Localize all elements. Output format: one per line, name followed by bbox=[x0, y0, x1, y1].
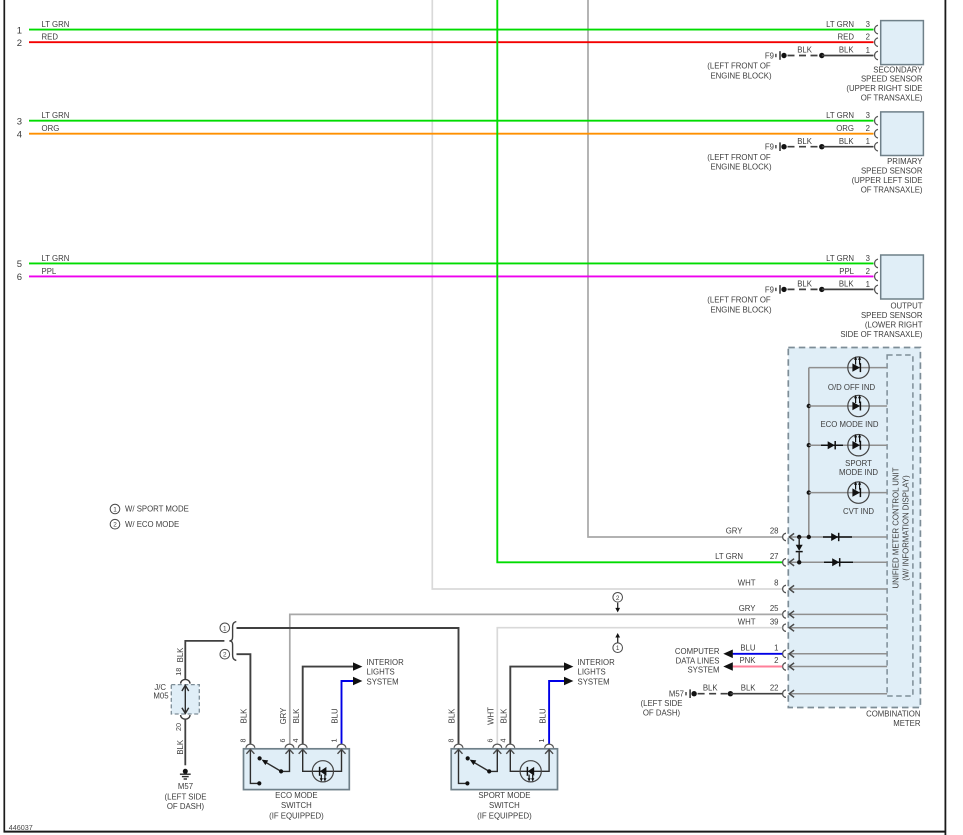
svg-text:LT GRN: LT GRN bbox=[42, 111, 70, 120]
eco switch LED bbox=[312, 761, 333, 782]
primary speed sensor box bbox=[881, 112, 924, 156]
junction dot pin28 bus bbox=[807, 535, 811, 539]
page border left bbox=[3, 0, 5, 832]
svg-text:5: 5 bbox=[17, 259, 22, 270]
wire BLK J/C to ground M57 bbox=[184, 719, 186, 765]
svg-text:BLK: BLK bbox=[240, 708, 249, 724]
svg-text:OF TRANSAXLE): OF TRANSAXLE) bbox=[861, 94, 923, 103]
sport mode switch box bbox=[451, 749, 557, 790]
option 2 circle at brace bbox=[220, 649, 230, 659]
svg-text:INTERIOR: INTERIOR bbox=[578, 658, 616, 667]
arrow computer data lines PNK bbox=[723, 662, 733, 671]
svg-text:1: 1 bbox=[113, 507, 117, 514]
wire 6 PPL bbox=[29, 275, 874, 277]
svg-text:4: 4 bbox=[498, 739, 507, 743]
sport switch arm arrowhead bbox=[470, 760, 477, 766]
svg-text:1: 1 bbox=[866, 280, 870, 289]
legend 1 W/ SPORT MODE bbox=[110, 504, 189, 514]
svg-text:DATA LINES: DATA LINES bbox=[676, 656, 720, 665]
svg-text:SPORT MODE: SPORT MODE bbox=[478, 791, 530, 800]
pin 39 inner wire bbox=[789, 627, 887, 629]
svg-text:2: 2 bbox=[17, 38, 22, 49]
svg-text:LIGHTS: LIGHTS bbox=[578, 668, 606, 677]
connector arcs output sensor bbox=[875, 259, 878, 294]
junction dot M57 right bbox=[728, 691, 733, 696]
svg-text:2: 2 bbox=[616, 595, 620, 602]
svg-text:8: 8 bbox=[447, 739, 456, 743]
svg-text:(IF EQUIPPED): (IF EQUIPPED) bbox=[477, 811, 532, 820]
svg-text:OF TRANSAXLE): OF TRANSAXLE) bbox=[861, 186, 923, 195]
svg-text:GRY: GRY bbox=[726, 527, 744, 536]
svg-text:BLK: BLK bbox=[839, 280, 855, 289]
svg-text:SPEED SENSOR: SPEED SENSOR bbox=[861, 167, 923, 176]
svg-text:27: 27 bbox=[770, 552, 779, 561]
wire BLK solid to pin 1 (primary) bbox=[822, 146, 874, 148]
svg-text:PPL: PPL bbox=[42, 267, 57, 276]
wire BLU sport pin 1 to interior lights bbox=[549, 681, 564, 744]
wire BLK dashed ground (output) bbox=[788, 288, 820, 290]
junction connector J/C M05 box bbox=[171, 685, 199, 714]
junction dot bus cvt branch bbox=[807, 490, 811, 494]
wire BLU eco pin 1 to interior lights bbox=[342, 681, 354, 744]
svg-text:(UPPER RIGHT SIDE: (UPPER RIGHT SIDE bbox=[846, 84, 922, 93]
branch wire SPORT MODE ind bbox=[809, 444, 887, 446]
svg-text:OF DASH): OF DASH) bbox=[167, 802, 205, 811]
svg-text:M57: M57 bbox=[178, 782, 193, 791]
wire BLK dashed ground (secondary) bbox=[788, 55, 820, 57]
svg-text:1: 1 bbox=[774, 644, 778, 653]
ground F9 (output sensor) bbox=[776, 285, 787, 294]
ground M57 (right) bbox=[686, 689, 697, 698]
svg-text:WHT: WHT bbox=[738, 579, 756, 588]
svg-text:(W/ INFORMATION DISPLAY): (W/ INFORMATION DISPLAY) bbox=[902, 475, 911, 581]
svg-text:4: 4 bbox=[17, 130, 22, 141]
wire 2 BLK brace to eco mode switch pin 8 bbox=[237, 654, 251, 744]
svg-text:6: 6 bbox=[485, 739, 494, 743]
output speed sensor box bbox=[881, 255, 924, 299]
option 1 annotation arrow (WHT wire) bbox=[613, 633, 623, 653]
svg-text:UNIFIED METER CONTROL UNIT: UNIFIED METER CONTROL UNIT bbox=[892, 467, 901, 588]
junction dot (secondary ground) bbox=[819, 53, 824, 58]
svg-text:2: 2 bbox=[866, 124, 870, 133]
secondary speed sensor box bbox=[881, 21, 924, 65]
junction dot pin27 bbox=[797, 560, 801, 564]
svg-text:1: 1 bbox=[330, 739, 339, 743]
svg-text:RED: RED bbox=[838, 33, 855, 42]
sport switch pin chevrons bbox=[455, 749, 554, 753]
svg-text:(LEFT FRONT OF: (LEFT FRONT OF bbox=[707, 62, 771, 71]
diode pin 28 bbox=[823, 533, 852, 541]
option 2 annotation arrow (GRY wire) bbox=[613, 593, 623, 613]
LED ECO MODE ind bbox=[848, 395, 869, 417]
LED CVT ind bbox=[848, 481, 869, 503]
svg-text:O/D OFF IND: O/D OFF IND bbox=[828, 383, 876, 392]
svg-text:PPL: PPL bbox=[839, 267, 854, 276]
pin 25 inner wire bbox=[789, 613, 887, 615]
wire BLK dashed ground M57 right bbox=[698, 693, 728, 695]
svg-text:BLK: BLK bbox=[741, 683, 757, 692]
unified meter control unit label bbox=[892, 467, 911, 588]
pin 2 inner wire bbox=[789, 666, 887, 668]
wire 3 LT GRN bbox=[29, 120, 874, 122]
svg-text:M57: M57 bbox=[669, 690, 684, 699]
svg-text:(LEFT FRONT OF: (LEFT FRONT OF bbox=[707, 296, 771, 305]
J/C M05 connector arc bottom bbox=[181, 715, 190, 719]
svg-text:M05: M05 bbox=[153, 692, 169, 701]
ground M57 (left) bbox=[180, 769, 191, 779]
svg-text:1: 1 bbox=[616, 645, 620, 652]
svg-text:PRIMARY: PRIMARY bbox=[887, 157, 923, 166]
svg-text:ORG: ORG bbox=[836, 124, 854, 133]
ground F9 (primary sensor) bbox=[776, 142, 787, 151]
svg-text:GRY: GRY bbox=[279, 707, 288, 725]
svg-text:3: 3 bbox=[866, 254, 870, 263]
wire BLK solid to pin 22 bbox=[730, 693, 782, 695]
brace bbox=[229, 622, 236, 661]
svg-text:CVT IND: CVT IND bbox=[843, 507, 874, 516]
svg-text:3: 3 bbox=[17, 117, 22, 128]
svg-text:W/ ECO MODE: W/ ECO MODE bbox=[125, 520, 179, 529]
svg-text:1: 1 bbox=[17, 25, 22, 36]
sport switch LED wiring bbox=[510, 751, 549, 772]
svg-text:2: 2 bbox=[774, 656, 778, 665]
svg-text:LT GRN: LT GRN bbox=[715, 552, 743, 561]
LED O/D OFF ind bbox=[848, 356, 869, 378]
sport switch internal contact wiring bbox=[459, 751, 498, 784]
svg-text:18: 18 bbox=[174, 668, 183, 676]
svg-text:BLK: BLK bbox=[176, 647, 185, 663]
eco switch pin chevrons bbox=[246, 749, 345, 753]
option 1 circle at brace bbox=[220, 623, 230, 633]
svg-text:W/ SPORT MODE: W/ SPORT MODE bbox=[125, 505, 189, 514]
svg-text:SECONDARY: SECONDARY bbox=[873, 65, 923, 74]
svg-text:LIGHTS: LIGHTS bbox=[367, 668, 395, 677]
svg-text:(IF EQUIPPED): (IF EQUIPPED) bbox=[269, 811, 324, 820]
svg-text:3: 3 bbox=[866, 111, 870, 120]
pin 1 inner wire bbox=[789, 653, 887, 655]
wire BLK sport pin 4 to interior lights bbox=[510, 667, 564, 745]
svg-text:BLK: BLK bbox=[797, 137, 813, 146]
svg-text:28: 28 bbox=[770, 527, 779, 536]
svg-text:SYSTEM: SYSTEM bbox=[578, 677, 610, 686]
svg-text:WHT: WHT bbox=[738, 617, 756, 626]
svg-text:COMBINATION: COMBINATION bbox=[866, 710, 920, 719]
svg-text:SYSTEM: SYSTEM bbox=[687, 666, 719, 675]
junction dot (primary ground) bbox=[819, 144, 824, 149]
arrow interior lights sport BLK bbox=[564, 662, 573, 670]
arrow computer data lines BLU bbox=[723, 650, 733, 659]
svg-text:SWITCH: SWITCH bbox=[489, 801, 520, 810]
svg-text:F9: F9 bbox=[765, 51, 774, 60]
connector arcs secondary sensor bbox=[875, 25, 878, 60]
svg-text:4: 4 bbox=[291, 739, 300, 743]
svg-text:MODE IND: MODE IND bbox=[839, 468, 878, 477]
LED SPORT MODE ind bbox=[848, 434, 869, 456]
legend 2 W/ ECO MODE bbox=[110, 519, 179, 529]
svg-text:LT GRN: LT GRN bbox=[826, 111, 854, 120]
svg-text:1: 1 bbox=[537, 739, 546, 743]
svg-text:LT GRN: LT GRN bbox=[42, 20, 70, 29]
junction dot bus sport branch bbox=[807, 443, 811, 447]
sport switch LED bbox=[520, 761, 541, 782]
arrow interior lights eco BLK bbox=[353, 662, 362, 670]
wire GRY eco pin 6 to meter pin 25 bbox=[290, 614, 783, 744]
diode sport branch bbox=[821, 441, 843, 449]
svg-text:2: 2 bbox=[866, 33, 870, 42]
svg-text:8: 8 bbox=[774, 579, 778, 588]
eco switch connector arcs bbox=[246, 744, 346, 748]
svg-text:ENGINE BLOCK): ENGINE BLOCK) bbox=[710, 72, 771, 81]
svg-text:GRY: GRY bbox=[739, 604, 757, 613]
ground F9 (secondary sensor) bbox=[776, 51, 787, 60]
chevron arrows combination meter pins bbox=[789, 533, 794, 697]
junction dot bus eco branch bbox=[807, 404, 811, 408]
wire 1 LT GRN bbox=[29, 29, 874, 31]
J/C M05 connector arc top bbox=[181, 679, 190, 683]
svg-text:3: 3 bbox=[866, 20, 870, 29]
unified meter control unit dashed box bbox=[887, 355, 913, 696]
branch wire CVT ind bbox=[809, 492, 887, 494]
svg-text:39: 39 bbox=[770, 617, 779, 626]
branch wire ECO MODE ind bbox=[809, 405, 887, 407]
svg-text:1: 1 bbox=[866, 46, 870, 55]
junction dot pin28 a bbox=[797, 535, 801, 539]
wire 1 BLK brace to sport mode switch pin 8 bbox=[237, 628, 459, 744]
wire WHT vertical to pin 8 bbox=[432, 0, 782, 589]
svg-text:SPEED SENSOR: SPEED SENSOR bbox=[861, 311, 923, 320]
junction dot (output ground) bbox=[819, 287, 824, 292]
svg-text:8: 8 bbox=[239, 739, 248, 743]
svg-text:SIDE OF TRANSAXLE): SIDE OF TRANSAXLE) bbox=[840, 330, 923, 339]
svg-text:6: 6 bbox=[17, 272, 22, 283]
diode down between pin28 and pin27 bbox=[796, 537, 803, 562]
diode pin 27 bbox=[824, 558, 853, 566]
svg-text:BLK: BLK bbox=[703, 683, 719, 692]
J/C M05 internal wire with arrows bbox=[182, 685, 189, 713]
wire BLU computer data lines bbox=[733, 653, 783, 655]
eco mode switch box bbox=[244, 749, 350, 790]
arrow interior lights eco BLU bbox=[353, 677, 362, 685]
wire BLK from junction to brace bbox=[185, 641, 224, 680]
wire GRY vertical to pin 28 bbox=[588, 0, 782, 537]
wire BLK solid to pin 1 (output) bbox=[822, 288, 874, 290]
pin 27 inner wire bbox=[789, 561, 887, 563]
page border bottom bbox=[4, 831, 947, 833]
svg-text:2: 2 bbox=[866, 267, 870, 276]
svg-text:COMPUTER: COMPUTER bbox=[675, 647, 720, 656]
svg-text:1: 1 bbox=[866, 137, 870, 146]
combination meter dashed box bbox=[788, 348, 920, 708]
svg-text:ORG: ORG bbox=[42, 124, 60, 133]
svg-text:F9: F9 bbox=[765, 285, 774, 294]
svg-text:(LEFT FRONT OF: (LEFT FRONT OF bbox=[707, 153, 771, 162]
svg-text:F9: F9 bbox=[765, 143, 774, 152]
svg-text:ENGINE BLOCK): ENGINE BLOCK) bbox=[710, 305, 771, 314]
svg-text:RED: RED bbox=[42, 33, 59, 42]
connector arcs primary sensor bbox=[875, 116, 878, 151]
svg-text:BLK: BLK bbox=[176, 739, 185, 755]
svg-text:2: 2 bbox=[223, 652, 227, 659]
svg-text:ECO MODE IND: ECO MODE IND bbox=[820, 420, 878, 429]
svg-text:PNK: PNK bbox=[739, 656, 756, 665]
svg-text:SPORT: SPORT bbox=[845, 459, 872, 468]
svg-text:BLK: BLK bbox=[839, 137, 855, 146]
svg-text:(LEFT SIDE: (LEFT SIDE bbox=[641, 699, 683, 708]
wire BLK dashed ground (primary) bbox=[788, 146, 820, 148]
sport switch connector arcs bbox=[454, 744, 553, 748]
svg-text:BLK: BLK bbox=[797, 280, 813, 289]
eco switch contact dots bbox=[257, 781, 261, 785]
wire 5 LT GRN bbox=[29, 262, 874, 264]
svg-text:6: 6 bbox=[278, 739, 287, 743]
meter internal bus wire bbox=[808, 368, 810, 537]
svg-text:22: 22 bbox=[770, 683, 779, 692]
svg-text:1: 1 bbox=[223, 625, 227, 632]
eco switch arm arrowhead bbox=[262, 760, 269, 766]
branch wire O/D OFF ind bbox=[809, 367, 887, 369]
svg-text:OF DASH): OF DASH) bbox=[643, 709, 681, 718]
arrow interior lights sport BLU bbox=[564, 677, 573, 685]
svg-text:BLU: BLU bbox=[538, 708, 547, 724]
eco switch internal contact wiring bbox=[250, 751, 289, 784]
svg-text:SWITCH: SWITCH bbox=[281, 801, 312, 810]
wire PNK computer data lines bbox=[733, 666, 783, 668]
svg-text:LT GRN: LT GRN bbox=[42, 254, 70, 263]
svg-text:20: 20 bbox=[174, 723, 183, 731]
svg-text:BLK: BLK bbox=[797, 46, 813, 55]
sport switch contact dots bbox=[465, 781, 469, 785]
svg-text:INTERIOR: INTERIOR bbox=[367, 658, 405, 667]
svg-text:SPEED SENSOR: SPEED SENSOR bbox=[861, 75, 923, 84]
wire LT GRN vertical to pin 27 bbox=[497, 0, 782, 562]
wire WHT sport pin 6 to meter pin 39 bbox=[497, 628, 782, 745]
svg-text:WHT: WHT bbox=[487, 707, 496, 725]
svg-text:BLK: BLK bbox=[292, 708, 301, 724]
eco switch LED wiring bbox=[303, 751, 342, 772]
svg-text:METER: METER bbox=[893, 719, 921, 728]
svg-text:25: 25 bbox=[770, 604, 779, 613]
svg-text:(UPPER LEFT SIDE: (UPPER LEFT SIDE bbox=[852, 176, 923, 185]
svg-text:BLK: BLK bbox=[839, 46, 855, 55]
svg-text:OUTPUT: OUTPUT bbox=[890, 302, 922, 311]
page border right bbox=[944, 0, 946, 835]
svg-text:BLU: BLU bbox=[331, 708, 340, 724]
pin 28 inner wire bbox=[789, 536, 887, 538]
wire 2 RED bbox=[29, 41, 874, 43]
svg-text:ENGINE BLOCK): ENGINE BLOCK) bbox=[710, 163, 771, 172]
svg-text:2: 2 bbox=[113, 522, 117, 529]
svg-text:446037: 446037 bbox=[9, 823, 33, 832]
svg-text:BLK: BLK bbox=[448, 708, 457, 724]
pin 8 inner wire bbox=[789, 588, 887, 590]
svg-text:(LOWER RIGHT: (LOWER RIGHT bbox=[865, 320, 923, 329]
svg-text:SYSTEM: SYSTEM bbox=[367, 677, 399, 686]
pin 22 inner wire bbox=[789, 693, 887, 695]
wire BLK solid to pin 1 (secondary) bbox=[822, 55, 874, 57]
svg-text:ECO MODE: ECO MODE bbox=[275, 791, 317, 800]
svg-text:BLK: BLK bbox=[500, 708, 509, 724]
svg-text:(LEFT SIDE: (LEFT SIDE bbox=[165, 793, 207, 802]
connector arcs combination meter bbox=[783, 533, 786, 697]
wire 4 ORG bbox=[29, 133, 874, 135]
svg-text:BLU: BLU bbox=[740, 644, 756, 653]
svg-text:LT GRN: LT GRN bbox=[826, 20, 854, 29]
wire BLK eco pin 4 to interior lights bbox=[303, 667, 354, 745]
svg-text:LT GRN: LT GRN bbox=[826, 254, 854, 263]
